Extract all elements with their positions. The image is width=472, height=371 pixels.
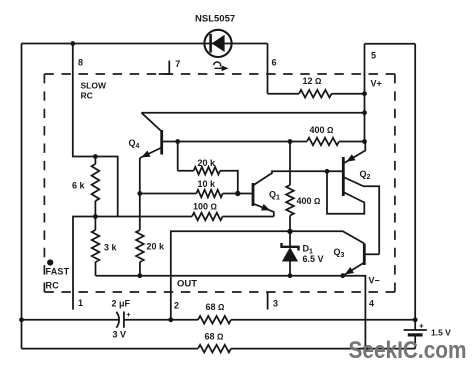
svg-text:V−: V− bbox=[369, 276, 380, 286]
svg-text:RC: RC bbox=[46, 281, 60, 291]
transistor Q3 bbox=[363, 244, 366, 266]
svg-text:3: 3 bbox=[273, 299, 278, 309]
node: Q3 emitter bbox=[340, 273, 345, 278]
node: base rail tap for 20k bbox=[175, 139, 180, 144]
transistor Q4 bbox=[160, 130, 163, 155]
wire: OUT / Q3 collector rail bbox=[171, 231, 364, 319]
LED NSL5057 bbox=[204, 30, 231, 57]
svg-text:NSL5057: NSL5057 bbox=[195, 14, 235, 25]
pin 5 lead (V+) bbox=[364, 44, 366, 142]
svg-text:Q4: Q4 bbox=[129, 138, 140, 150]
resistor 10 k bbox=[140, 193, 197, 195]
svg-text:2 μF: 2 μF bbox=[112, 299, 131, 309]
resistor 400 ohm (vertical) bbox=[289, 142, 291, 186]
node: 400 ohm bottom on collector rail bbox=[287, 229, 292, 234]
svg-text:68 Ω: 68 Ω bbox=[206, 302, 226, 312]
battery B1 1.5 V bbox=[404, 329, 427, 331]
IC dashed outline bbox=[44, 73, 395, 75]
svg-text:6.5 V: 6.5 V bbox=[303, 254, 324, 264]
wire: right outer rail down to battery bbox=[414, 44, 416, 330]
svg-text:Q3: Q3 bbox=[334, 247, 345, 259]
node: Q2 base / loop junction bbox=[325, 169, 330, 174]
svg-text:400 Ω: 400 Ω bbox=[297, 196, 322, 206]
svg-text:OUT: OUT bbox=[177, 279, 197, 290]
svg-text:8: 8 bbox=[78, 58, 83, 68]
svg-text:1.5 V: 1.5 V bbox=[431, 328, 451, 338]
node: collector rail at V+ bbox=[362, 110, 367, 115]
svg-text:5: 5 bbox=[371, 51, 376, 61]
svg-text:20 k: 20 k bbox=[198, 158, 217, 168]
svg-text:2: 2 bbox=[174, 301, 179, 311]
svg-text:68 Ω: 68 Ω bbox=[205, 332, 225, 342]
svg-text:FAST: FAST bbox=[46, 267, 70, 277]
node: base rail at V+ bbox=[362, 139, 367, 144]
node: D1 anode bbox=[288, 273, 293, 278]
transistor Q2 bbox=[342, 157, 345, 196]
node: 6k/3k/pin1 junction bbox=[93, 214, 98, 219]
wire: V- internal rail (3k bottom to pin 4) bbox=[96, 276, 366, 349]
capacitor C1 2 uF 3 V bbox=[116, 312, 119, 328]
node: Q4 emitter / 20k / 10k junction bbox=[137, 191, 142, 196]
svg-text:+: + bbox=[419, 322, 424, 331]
svg-text:SeekIC.com: SeekIC.com bbox=[349, 337, 467, 364]
node: left rail / mid wire junction bbox=[19, 317, 24, 322]
wire: Q4 emitter drop to 10k node bbox=[139, 158, 141, 194]
resistor 68 ohm (lower) bbox=[198, 345, 231, 353]
wire: Q4 base rail with 400 ohm to V+ bbox=[162, 141, 307, 143]
FAST RC label with bullet bbox=[47, 259, 53, 265]
zener diode D1 6.5 V bbox=[289, 231, 291, 247]
svg-text:400 Ω: 400 Ω bbox=[310, 125, 335, 135]
node: 20k/10k/Q1 base junction bbox=[235, 191, 240, 196]
wire: mid horizontal (pins 1-2 / capacitor) rail bbox=[22, 319, 120, 321]
pin 3 stub bbox=[267, 292, 269, 309]
resistor 100 ohm bbox=[95, 216, 192, 218]
wire: left outer rail bbox=[21, 44, 23, 349]
resistor 12 ohm bbox=[268, 93, 300, 95]
svg-text:10 k: 10 k bbox=[198, 179, 217, 189]
svg-text:6 k: 6 k bbox=[72, 181, 86, 191]
svg-text:SLOW: SLOW bbox=[81, 81, 107, 91]
svg-text:3 k: 3 k bbox=[104, 243, 118, 253]
LED flashing arrow bbox=[214, 62, 221, 66]
transistor Q1 bbox=[252, 183, 255, 206]
svg-text:V+: V+ bbox=[371, 79, 382, 89]
svg-text:Q1: Q1 bbox=[269, 190, 280, 202]
svg-text:1: 1 bbox=[78, 298, 83, 308]
wire: L link from 6k top to 100 ohm rail bbox=[95, 157, 117, 217]
svg-text:100 Ω: 100 Ω bbox=[193, 202, 218, 212]
node: battery positive on mid wire bbox=[413, 317, 418, 322]
svg-text:RC: RC bbox=[81, 91, 93, 101]
resistor 400 ohm (horizontal) bbox=[307, 138, 339, 146]
wire: battery branch top-right jog bbox=[365, 43, 416, 45]
node: base rail tap for 400 ohm vertical bbox=[288, 139, 293, 144]
node: top rail / pin 8 branch bbox=[70, 41, 75, 46]
svg-text:20 k: 20 k bbox=[147, 242, 166, 252]
pin 7 stub bbox=[159, 61, 170, 74]
svg-text:7: 7 bbox=[175, 59, 180, 69]
node: pin4 at bottom rail bbox=[363, 346, 368, 351]
node: 20k bottom bbox=[137, 273, 142, 278]
svg-text:Q2: Q2 bbox=[360, 169, 371, 181]
resistor 20 k (left vertical) bbox=[139, 194, 141, 231]
node: pin8 / 6k / Q4 emitter net corner bbox=[93, 154, 98, 159]
svg-text:12 Ω: 12 Ω bbox=[303, 76, 323, 86]
wire: pin 1 lead bbox=[73, 217, 95, 310]
node: 12 ohm at V+ rail bbox=[362, 91, 367, 96]
wire: top rail from left corner through LED to pin 6 corner bbox=[22, 43, 268, 45]
wire: pin 6 lead (LED to 12 ohm) bbox=[267, 44, 269, 94]
node: pin 2 at mid wire bbox=[168, 317, 173, 322]
resistor 20 k (upper horizontal) bbox=[177, 142, 179, 171]
resistor 3 k bbox=[94, 217, 96, 231]
wire: bottom outer rail bbox=[22, 348, 199, 350]
wire: Q4 collector rail bbox=[141, 112, 364, 114]
svg-text:3 V: 3 V bbox=[113, 330, 127, 340]
resistor 6 k bbox=[94, 157, 96, 165]
resistor 68 ohm (upper) bbox=[198, 316, 231, 324]
svg-text:6: 6 bbox=[272, 58, 277, 68]
svg-text:4: 4 bbox=[369, 299, 374, 309]
wire: pin 8 lead down to 6k bbox=[73, 44, 96, 157]
svg-text:+: + bbox=[126, 310, 131, 319]
